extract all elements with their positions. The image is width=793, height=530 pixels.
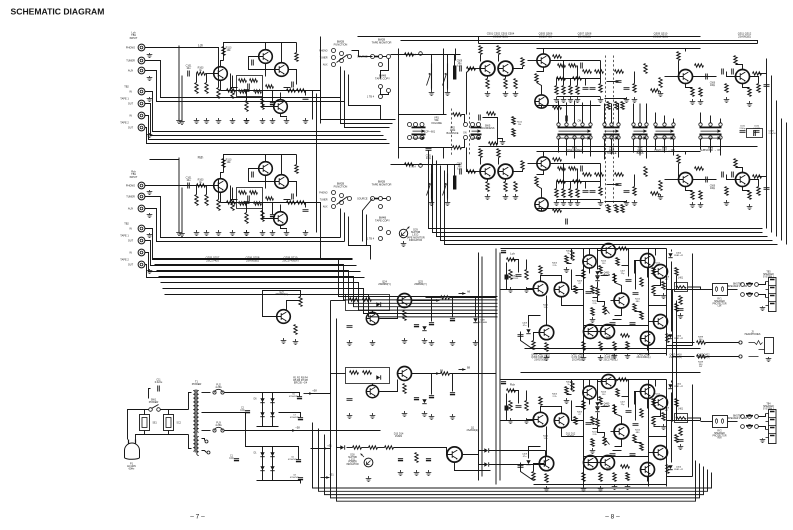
wire PHONO Rch to preamp [145,181,219,186]
wire volume left [399,115,405,148]
svg-text:Q507 Q5082SA955(E): Q507 Q5082SA955(E) [578,32,592,39]
svg-text:SCHEMATIC DIAGRAM: SCHEMATIC DIAGRAM [11,7,105,17]
wire Lch q106 out [289,70,297,85]
wire filter gnd2 [168,431,170,435]
wire Rch tone in [469,171,480,173]
ground Rch pa q05 [544,486,550,492]
wire Lch r down3 [272,91,274,103]
wire Lch r down2 [262,91,264,99]
resistor R541 [734,159,737,168]
wire Rch to switch1 [363,199,373,242]
box speaker protector RY2 [713,416,728,428]
resistor R513 [573,180,582,183]
wire Q28 base [263,291,301,317]
wire Lch r13 out [628,248,649,250]
resistor R543 [725,187,728,196]
switch contact TM Lch d [379,63,383,67]
ground Lch tone3 [513,91,519,97]
wire Lch q509 base [665,76,679,78]
switch contact SW HIGH CUT top 2 [672,123,675,126]
svg-text:IN: IN [129,91,132,94]
wire Rch q11 up [615,414,622,425]
svg-text:Q511 Q5122SA992(E): Q511 Q5122SA992(E) [738,32,752,39]
wire Rch tone rail [479,146,758,148]
switch contact SW SUBSONIC bot 0 [699,136,702,139]
wire strip drop hc 5 [720,119,722,123]
svg-text:Lch: Lch [510,252,515,256]
wire Lch q503 in [528,60,537,62]
wire Lch fb net [231,74,238,88]
wire mid bus 5 [445,171,778,245]
ground tone mid4 Lch [658,91,664,97]
resistor R429 [599,342,602,351]
capacitor C501 [566,116,568,122]
ground pa extra Lch 4 [661,293,667,299]
ground Rch input2 [230,230,236,236]
wire Lch pa q1 base [527,288,534,290]
ground Rch vert bus b [179,231,185,237]
wire mute coil Rch [454,165,456,176]
capacitor C7C [429,395,434,397]
resistor tone extra h2 Lch [569,64,577,67]
resistor reg 24 a [350,298,359,301]
wire Rch q11 dn [615,439,622,447]
wire Lch pa in cap [511,260,519,273]
diode zener D24 [422,326,426,330]
ground C21 [450,340,456,346]
resistor R218 [254,202,262,205]
resistor R449 [697,355,706,358]
switch contact SOURCE Rch a [371,197,375,201]
capacitor C103 [244,90,250,92]
ground pa extra Rch 0 [564,398,570,404]
resistor mute Rch [405,163,414,166]
wire Rch vert x614 [614,405,616,414]
switch contact FUNCTION Lch 2 [332,63,336,67]
svg-text:OUT: OUT [128,103,134,106]
wire Lch in net2 [232,76,234,88]
wire reg 24 base [380,307,398,319]
ground Lch tone2 [503,91,509,97]
resistor R217 [266,197,274,200]
wire strip drop hc dn 5 [720,140,722,156]
wire strip drop hc 3 [700,113,702,123]
resistor R407 [539,397,542,406]
switch contact VR4 BASS bot 1 [638,136,641,139]
wire strip drop down 0 [558,140,560,153]
capacitor C2 [245,410,250,412]
wire strip drop down 4 [590,140,592,157]
capacitor C6 electrolytic [296,459,301,461]
jack OUT Lch [138,100,145,107]
wire mute long vert c [443,148,445,159]
ground Lch input1 [216,118,222,124]
switch SW HIGH CUT track lower [655,134,675,140]
wire hp vert [672,290,674,422]
switch bar SOURCE Lch [374,56,379,58]
wire Rch r down2 [262,203,264,211]
wire Lch vert bus b [181,76,183,121]
wire Lch q03 drop [562,297,584,306]
wire psu rail1 [263,393,300,397]
resistor R553 [497,46,500,55]
switch contact SW5 3 [477,136,481,140]
wire volume top [399,114,447,116]
transistor Q421 [654,315,668,329]
wire Rch r down4 [305,203,307,208]
arrow -58 [287,429,296,432]
diode D403 [595,271,599,275]
wire bridge D1-D4 vert2 [272,447,274,481]
ground Lch out row2 [598,355,604,361]
wire C7B drop [431,298,433,322]
diode D6-D9 2 [270,398,274,402]
ground reg 25 2 [370,413,376,419]
ground LED [401,241,407,247]
ground reg 24 3 [402,338,408,344]
wire Lch int seg2 [601,275,609,277]
wire mute long vert a [443,49,445,115]
wire c11 wires [149,389,151,399]
wire Lch tone bot rail [537,105,601,107]
capacitor C113 [303,98,309,100]
ground tone mid Lch [598,97,604,103]
wire Rch stack vert3 [563,164,565,182]
wire hp links2 [706,356,739,358]
wire Rch out line [501,420,534,422]
wire switch to xfmr [161,409,189,411]
capacitor pa extra Lch 2 [630,323,636,325]
wire strip drop down 10 [646,140,648,159]
wire reg rail lower2 [450,373,496,375]
wire Lch int seg3 [622,265,629,267]
diode D405 [668,384,672,388]
capacitor C11 [158,386,160,392]
svg-text:–58: –58 [295,426,300,430]
resistor pa extra Rch 6 [640,443,643,451]
wire Rch int seg7 [613,450,622,452]
resistor pa extra Lch 5 [633,304,636,312]
resistor pa extra Lch 7 [652,268,655,276]
resistor tone stack Lch 3 [576,86,579,95]
capacitor C455 [501,381,506,383]
wire Rch drop c [570,182,572,189]
transistor Q1 [447,447,462,462]
switch contact TM Rch c [387,197,391,201]
resistor R405 [525,270,528,280]
resistor R419 [596,288,599,296]
svg-text:1 TB A: 1 TB A [409,166,416,169]
resistor tone extra 616 [615,102,618,110]
capacitor C1 [234,458,239,460]
transistor Q405 [539,325,553,339]
ground pa extra Rch 4 [661,424,667,430]
wire strip drop hc 1 [664,116,666,123]
switch contact speaker RY1 1 [748,283,752,287]
wire fn drop Rch 1 [340,209,342,238]
wire mute rail Rch [391,164,461,166]
wire Rch fb net [231,186,238,200]
capacitor C401 [516,275,522,277]
resistor pa extra Rch 7 [652,399,655,407]
wire Lch mid link [607,81,619,83]
wire Rch q511 out [750,180,759,187]
wire TAPE2 OUT Rch bus [145,265,365,278]
resistor R525 [644,167,647,177]
wire Lch q104 collector [265,43,267,50]
wire Rch drv link2 [654,410,661,417]
capacitor C515 [722,172,724,178]
capacitor C409 [678,309,684,311]
wire strip drop up 0 [558,101,560,123]
ground Lch in r1 [194,118,200,124]
ground pa extra Rch 3 [625,484,631,490]
switch contact COPY Lch a [379,85,383,89]
capacitor C21 [450,318,455,320]
capacitor C511 [624,88,630,90]
switch contact speaker RY2 5 [755,425,759,429]
headphone jack J3 [749,338,774,357]
box line filter SE1 [140,415,150,431]
wire Rch int seg1 [576,406,584,408]
ground tone mid2 Rch [624,200,630,206]
wire Lch rail top [501,248,667,250]
potentiometer VR1 track lower [412,134,426,140]
switch SW HIGH CUT track upper [655,127,675,133]
wire preamp out vert 3 [320,37,322,124]
wire bridge D6-D9 top [257,392,279,394]
resistor R512a [512,117,515,125]
wire Rch q11 net [611,431,615,433]
wire Lch q511 in [727,72,736,77]
capacitor C405 [626,280,632,282]
resistor pa extra Rch 9 [626,473,629,481]
wire Rch tone bot rail [537,208,601,210]
arrow B8 onto rail [459,368,466,371]
resistor RLche1 [675,268,678,276]
resistor RLche2 [675,304,678,312]
ground relay 2 [414,470,420,476]
svg-text:+58: +58 [312,389,317,393]
wire Lch fb out [284,87,291,89]
resistor R545 [748,88,751,97]
wire strip drop up 3 [582,103,584,123]
capacitor C403 [518,335,524,337]
resistor R525 [644,64,647,74]
ground Rch tone2 [503,194,509,200]
wire Rch pa in cap [511,391,519,404]
svg-text:TB2: TB2 [124,223,129,226]
wire Lch q8 emitter [281,114,287,118]
wire Lch pair top [481,43,499,45]
capacitor pa extra Rch 1 [610,454,616,456]
switch lever SW1 [152,405,159,409]
transistor Q421 [654,446,668,460]
wire mute rail Lch [391,54,461,56]
resistor pa extra Lch 3 [599,266,602,274]
wire Rch fb run [692,385,694,477]
wire Rch q501 cap [513,170,523,172]
wire Rch in stub [206,185,215,187]
switch contact VR1 2 [420,123,424,127]
ground Rch in r2 [204,230,210,236]
resistor R501 [553,158,562,161]
resistor R435 [666,334,669,343]
wire D451 net [507,394,513,421]
wire relay src [336,319,338,448]
resistor R233 [195,195,198,206]
wire Rch vert rail2 [583,380,585,487]
transistor Q415 [654,396,668,410]
resistor R437 [679,296,682,305]
capacitor C207 [248,196,250,202]
diode D451 [505,406,509,411]
resistor VR4 [603,437,606,446]
wire Lch bus out2 [341,98,393,124]
wire Rch diff tail [546,427,548,457]
wire Rch bus step 6 [165,295,498,317]
ground Rch tone1 [485,194,491,200]
wire sp out wire RY2 [759,414,766,417]
resistor R557 [504,79,507,89]
wire Rch q509 emit [686,187,693,191]
wire fn drop Lch 2 [344,71,346,102]
switch contact VR4 BASS bot 0 [632,136,635,139]
capacitor C213 [303,210,309,212]
switch contact SW SUBSONIC top 2 [719,123,722,126]
ground Rch input3 [244,230,250,236]
ground tone out Lch [690,99,696,105]
transistor Q501 [480,61,495,76]
capacitor C551 [460,66,462,72]
switch contact SW SUBSONIC bot 1 [709,136,712,139]
switch contact speaker RY2 1 [748,415,752,419]
wire Rch q03 drop [562,428,584,437]
resistor R541 [734,56,737,65]
switch contact VR2 a [464,123,468,127]
capacitor relay C15 [426,458,431,460]
potentiometer muting Rch 2 [443,174,448,199]
wire Lch in net [218,68,220,88]
switch bar SOURCE Rch [374,198,379,200]
wire mute gnd2 Rch [447,199,449,201]
ground tone final Lch [724,97,730,103]
switch contact VR1 3 [408,136,412,140]
terminal strip marks TB4 [770,412,775,436]
wire strip link 0 [604,104,606,123]
diode reg 25 [376,375,380,379]
wire Lch stack top [557,78,601,80]
wire Rch q511 in [727,175,736,180]
resistor pa extra Rch 10 [591,417,594,425]
svg-text:Q457 Q458C472 Q4742SC945(L): Q457 Q458C472 Q4742SC945(L) [571,355,584,362]
wire strip link 1 [611,104,613,123]
wire loudness net [483,118,498,144]
ground tone final Rch [724,200,730,206]
terminal hp tip [739,341,742,344]
wire Rch diff pair [541,407,562,414]
capacitor C513 [706,177,708,183]
wire Rch bus step 1 [155,265,498,300]
wire Lch stack vert3 [563,61,565,79]
resistor R563 [521,161,524,170]
wire Lch int seg4 [635,311,642,313]
switch contact FUNCTION Lch 3 [340,52,344,56]
capacitor pa extra Rch 2 [630,454,636,456]
wire reg 25 base [380,380,398,392]
capacitor C533 [754,130,756,136]
resistor R216 [250,191,258,194]
resistor R521 [633,187,636,196]
capacitor C513 [706,74,708,80]
resistor R547 [757,187,760,196]
switch speaker bar RY1 [746,283,753,285]
wire Rch q102 collector [221,173,224,179]
wire Rch q07 down [589,400,591,405]
wire sec tap5 [202,451,207,453]
wire Rch mid out [649,436,667,438]
resistor R551 [479,149,482,158]
jack IN Lch [138,112,145,119]
resistor R529 [659,78,662,88]
wire reg 25 out [412,373,431,375]
wire bottom bus 4 [337,447,696,502]
wire strip drop hc dn 4 [710,140,712,153]
wire bridge D6-D9 bottom [257,426,279,428]
ground Q28 [281,338,287,344]
svg-text:TAPE 1: TAPE 1 [120,235,129,238]
wire Lch q23 link [647,346,649,351]
wire mid bus 4 [441,166,773,241]
resistor R105 [217,88,220,99]
wire Rch tone rail2 [537,151,701,153]
wire Lch vert x628 [628,249,630,277]
svg-text:SC2: SC2 [177,423,182,425]
resistor R549 [753,72,762,75]
ground Lch mid4 [303,118,309,124]
wire PHONO Lch to preamp [145,48,219,68]
resistor R405 [525,401,528,411]
ground mute1 Rch [429,200,435,206]
ground mute1 Lch [429,90,435,96]
wire strip drop hc dn 1 [664,140,666,153]
resistor R409 [532,341,535,350]
wire filter gnd [144,431,146,435]
wire Lch fb link [667,345,693,347]
wire mute gnd1 Rch [431,199,433,201]
wire Lch tone bot drop [541,106,543,109]
switch contact SW TONE DEFEAT bot 1 [565,136,568,139]
switch contact speaker RY2 4 [748,425,752,429]
wire Rch gnd rail [557,199,601,201]
switch SW TONE DEFEAT track upper [558,127,592,133]
wire mute long vert b [455,49,457,61]
wire strip drop down 8 [633,140,635,153]
wire Rch vert x628 [628,380,630,408]
ground tone out2 Lch [698,99,704,105]
wire C7C drop [431,374,433,395]
switch lever FUNCTION Rch [337,197,348,205]
svg-text:1 TB A: 1 TB A [409,54,416,57]
resistor relay R21 [415,453,418,463]
wire fuse3 out [225,430,381,432]
resistor pa extra Rch 3 [599,397,602,405]
resistor tone stack Rch 0 [555,189,558,198]
wire Rch out q21 [649,452,654,454]
box feedback Lch [237,76,263,97]
wire sec tap2 [202,413,246,415]
svg-text:C560100p: C560100p [710,186,716,190]
